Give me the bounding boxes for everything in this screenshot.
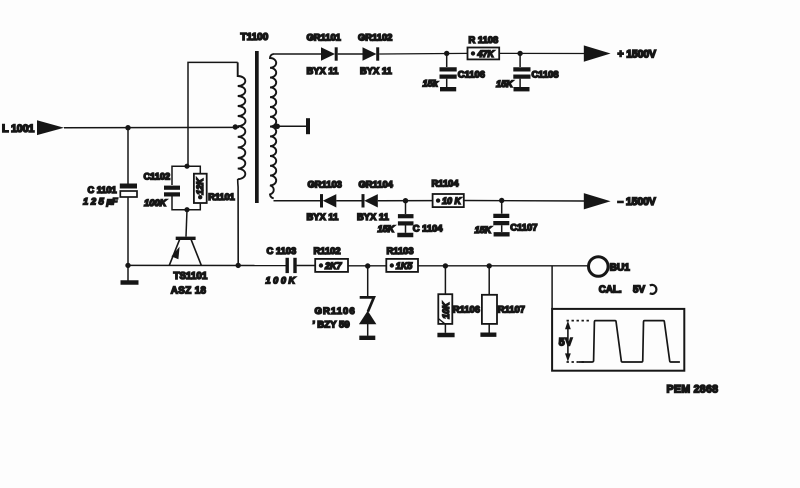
wire primary bottom lead — [237, 179, 240, 265]
svg-text:1K5: 1K5 — [396, 261, 414, 271]
svg-text:12K: 12K — [195, 177, 205, 195]
svg-text:5V: 5V — [559, 336, 573, 348]
node C1106 junction — [444, 51, 449, 56]
wire secondary bottom lead — [274, 200, 321, 202]
svg-text:BYX 11: BYX 11 — [357, 211, 389, 222]
svg-text:BYX 11: BYX 11 — [307, 211, 339, 222]
wire — [336, 200, 363, 202]
node secondary tap — [275, 124, 280, 129]
node left cal junction — [125, 263, 130, 268]
svg-text:BYX 11: BYX 11 — [360, 65, 392, 76]
wire C1101 bottom lead — [127, 197, 129, 265]
ground below C1108 — [514, 87, 530, 91]
waveform trace — [579, 321, 680, 362]
svg-text:GR1101: GR1101 — [307, 32, 341, 43]
wire — [464, 200, 584, 203]
dotted reference bottom — [567, 361, 586, 363]
svg-text:C1106: C1106 — [458, 68, 485, 79]
diode GR1102 — [358, 32, 392, 76]
capacitor C1108 — [496, 53, 559, 89]
svg-text:R1103: R1103 — [387, 245, 414, 256]
wire — [379, 52, 467, 55]
5V amplitude arrow — [559, 321, 573, 362]
svg-text:BU1: BU1 — [610, 263, 630, 274]
connector BU1 — [589, 257, 631, 277]
transistor TS1101 — [169, 238, 208, 296]
svg-text:100K: 100K — [144, 197, 168, 208]
svg-text:’ BZY 59: ’ BZY 59 — [313, 320, 350, 331]
wire secondary top lead — [273, 53, 321, 55]
ground chassis below C1101 — [121, 265, 139, 282]
wire C1101 top lead — [127, 128, 129, 184]
svg-text:5V: 5V — [633, 284, 645, 295]
svg-text:C 1101: C 1101 — [88, 185, 117, 195]
wire — [378, 200, 433, 202]
transformer T1100 secondary winding — [270, 54, 276, 198]
ground below R1106 — [437, 333, 454, 338]
ground below C1104 — [397, 233, 413, 237]
svg-text:– 1500V: – 1500V — [618, 196, 656, 208]
node R1106 junction — [443, 263, 448, 268]
svg-text:15K: 15K — [496, 79, 514, 89]
ground below R1107 — [480, 333, 496, 337]
svg-text:R1107: R1107 — [498, 303, 525, 314]
svg-text:ASZ 18: ASZ 18 — [171, 286, 207, 297]
wire cal rail left — [128, 264, 286, 266]
svg-text:R1101: R1101 — [208, 192, 235, 202]
capacitor C1101 — [83, 185, 137, 207]
node C1107 junction — [499, 198, 504, 203]
svg-text:GR1106: GR1106 — [315, 306, 356, 317]
output arrow -1500V — [584, 193, 656, 209]
diode GR1103 — [307, 179, 342, 223]
svg-text:PEM 2868: PEM 2868 — [667, 383, 719, 395]
svg-text:15K: 15K — [475, 225, 493, 235]
ground below C1106 — [440, 87, 456, 91]
wire — [348, 265, 386, 267]
svg-text:15k: 15k — [423, 78, 439, 88]
wire secondary tap lead — [271, 125, 307, 127]
resistor R1106 — [438, 266, 480, 333]
ground below GR1106 — [359, 336, 375, 340]
resistor R1103 — [386, 245, 418, 272]
svg-text:C 1103: C 1103 — [267, 245, 297, 256]
transformer T1100 primary winding — [238, 62, 246, 179]
wire input rail — [64, 126, 239, 128]
wire — [338, 53, 363, 55]
node network top — [184, 164, 189, 169]
svg-text:R1106: R1106 — [453, 303, 480, 314]
node primary tap — [233, 124, 238, 129]
svg-text:GR1102: GR1102 — [358, 32, 392, 43]
svg-text:15K: 15K — [378, 224, 396, 234]
wire network top bracket — [172, 166, 200, 185]
diode GR1104 — [357, 179, 394, 223]
capacitor C1102 — [144, 171, 181, 208]
svg-text:2K7: 2K7 — [324, 261, 343, 271]
resistor R1102 — [314, 245, 349, 272]
node transformer bottom junction — [236, 263, 241, 268]
node zener junction — [365, 263, 370, 268]
svg-text:BYX 11: BYX 11 — [307, 65, 339, 76]
svg-text:1 0 0 K: 1 0 0 K — [266, 275, 297, 285]
svg-text:R1104: R1104 — [432, 178, 460, 189]
svg-text:R1102: R1102 — [314, 245, 341, 256]
svg-text:47K: 47K — [477, 49, 496, 59]
svg-text:T1100: T1100 — [241, 32, 269, 43]
diode GR1101 — [307, 32, 341, 76]
resistor R1107 — [482, 266, 525, 333]
svg-text:+ 1500V: + 1500V — [618, 48, 656, 60]
node network bottom — [184, 207, 189, 212]
svg-text:L 1001: L 1001 — [2, 123, 34, 135]
node R1107 junction — [487, 263, 492, 268]
wire base lead — [186, 210, 187, 237]
transformer T1100 core — [255, 51, 259, 203]
svg-text:GR1103: GR1103 — [308, 179, 342, 190]
svg-text:GR1104: GR1104 — [359, 179, 394, 190]
input terminal L1001 — [2, 120, 64, 135]
wire — [297, 265, 316, 267]
wire — [499, 52, 584, 54]
svg-text:10 K: 10 K — [442, 196, 463, 206]
ground below C1107 — [494, 232, 510, 236]
resistor R1104 — [432, 178, 464, 207]
dotted reference top — [567, 320, 591, 322]
capacitor C1106 — [423, 53, 485, 88]
svg-text:C 1104: C 1104 — [413, 223, 443, 234]
capacitor C1103 — [266, 245, 297, 285]
waveform inset box — [552, 309, 684, 371]
svg-text:C1107: C1107 — [510, 221, 537, 232]
svg-text:10K: 10K — [441, 301, 451, 319]
wire feedback loop — [188, 62, 238, 164]
output arrow +1500V — [584, 45, 656, 61]
svg-text:C1108: C1108 — [532, 68, 559, 79]
node C1108 junction — [517, 51, 522, 56]
svg-text:TS1101: TS1101 — [174, 271, 208, 282]
wire cal rail right — [418, 265, 588, 267]
svg-text:CAL.: CAL. — [599, 284, 622, 295]
terminal bar secondary tap — [306, 118, 310, 134]
svg-text:C1102: C1102 — [144, 171, 171, 181]
wire network bottom bracket — [172, 197, 200, 210]
svg-text:R 1108: R 1108 — [469, 34, 499, 45]
wire waveform branch — [551, 266, 553, 309]
capacitor C1107 — [475, 201, 538, 236]
svg-text:1 2 5 µF: 1 2 5 µF — [83, 196, 118, 207]
label CAL 5V — [599, 284, 657, 295]
capacitor C1104 — [378, 201, 444, 235]
node C1104 junction — [403, 198, 408, 203]
node input junction — [125, 125, 130, 130]
zener diode GR1106 — [313, 266, 377, 336]
resistor R1108 — [468, 34, 500, 59]
resistor R1101 — [194, 174, 235, 203]
